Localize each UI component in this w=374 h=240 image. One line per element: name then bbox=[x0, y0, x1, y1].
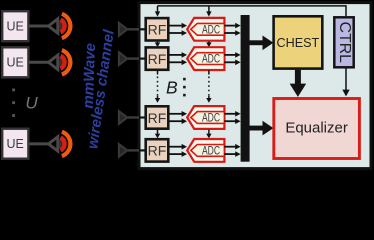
svg-text:ADC: ADC bbox=[202, 24, 220, 36]
BS antenna 2 bbox=[119, 52, 145, 65]
arrows ADC3 to bar bbox=[224, 111, 240, 124]
Equalizer box bbox=[274, 99, 360, 159]
control arrow RF3 to RF4 bbox=[155, 130, 160, 139]
svg-text:U: U bbox=[25, 94, 38, 113]
RF box 3 bbox=[146, 106, 169, 128]
CTRL box bbox=[334, 17, 353, 67]
arrows RF2 to ADC2 bbox=[169, 52, 187, 65]
dotted control arrow ADC2 to ADC3 bbox=[206, 70, 211, 103]
arrows ADC4 to bar bbox=[224, 144, 240, 157]
RF box 2 bbox=[146, 47, 169, 69]
ADC 2 bbox=[187, 47, 224, 70]
vertical dots between UE2 and UE3 bbox=[12, 89, 15, 117]
BS box (base station enclosure) bbox=[139, 3, 371, 169]
thick arrow bar to CHEST bbox=[250, 36, 274, 51]
control arrow ADC3 to ADC4 bbox=[206, 130, 211, 139]
arrows RF4 to ADC4 bbox=[169, 144, 187, 157]
UE antenna 3 bbox=[29, 137, 58, 151]
arrows RF1 to ADC1 bbox=[169, 23, 187, 36]
mmWave wireless channel label bbox=[80, 28, 118, 150]
svg-text:RF: RF bbox=[148, 51, 167, 67]
wave arcs 1 bbox=[59, 14, 71, 38]
combiner bar bbox=[241, 15, 250, 162]
thick arrow bar to Equalizer bbox=[250, 121, 274, 136]
svg-text:CHEST: CHEST bbox=[277, 36, 320, 50]
UE box 3 bbox=[2, 129, 28, 159]
CHEST box bbox=[274, 16, 323, 68]
UE antenna 2 bbox=[29, 55, 58, 69]
dotted control arrow RF2 to RF3 bbox=[155, 70, 160, 103]
svg-text:RF: RF bbox=[148, 22, 167, 38]
BS antenna 3 bbox=[119, 111, 145, 124]
svg-text:UE: UE bbox=[7, 137, 24, 151]
svg-text:B: B bbox=[166, 78, 178, 98]
svg-text:ADC: ADC bbox=[202, 54, 220, 66]
UE box 1 bbox=[2, 11, 28, 41]
svg-text:CTRL: CTRL bbox=[336, 22, 353, 63]
wave arcs 2 bbox=[59, 50, 71, 74]
thin arrow CTRL to Equalizer bbox=[342, 69, 349, 97]
svg-text:RF: RF bbox=[148, 110, 167, 126]
BS antenna 1 bbox=[119, 23, 145, 36]
wave arcs 3 bbox=[59, 132, 71, 156]
svg-text:Equalizer: Equalizer bbox=[285, 120, 348, 137]
arrows RF3 to ADC3 bbox=[169, 111, 187, 124]
BS antenna 4 bbox=[119, 144, 145, 157]
ADC 1 bbox=[187, 18, 224, 41]
RF box 4 bbox=[146, 139, 169, 161]
top control line from CTRL bbox=[158, 6, 347, 16]
UE antenna 1 bbox=[29, 19, 58, 33]
control arrow RF1 to RF2 bbox=[155, 42, 160, 48]
svg-text:RF: RF bbox=[148, 143, 167, 159]
svg-text:UE: UE bbox=[7, 56, 24, 70]
RF box 1 bbox=[146, 18, 169, 40]
vertical ellipsis in box bbox=[183, 78, 186, 97]
control drop into RF1 bbox=[155, 6, 160, 17]
ADC 4 bbox=[187, 139, 224, 162]
ADC 3 bbox=[187, 106, 224, 129]
thick arrow CHEST to Equalizer bbox=[290, 70, 307, 97]
control arrow ADC1 to ADC2 bbox=[206, 42, 211, 48]
control drop into ADC1 bbox=[206, 6, 211, 17]
svg-text:ADC: ADC bbox=[202, 146, 220, 158]
arrows ADC2 to bar bbox=[224, 52, 240, 65]
svg-text:ADC: ADC bbox=[202, 113, 220, 125]
arrows ADC1 to bar bbox=[224, 23, 240, 36]
UE box 2 bbox=[2, 47, 28, 77]
svg-text:UE: UE bbox=[7, 20, 24, 34]
